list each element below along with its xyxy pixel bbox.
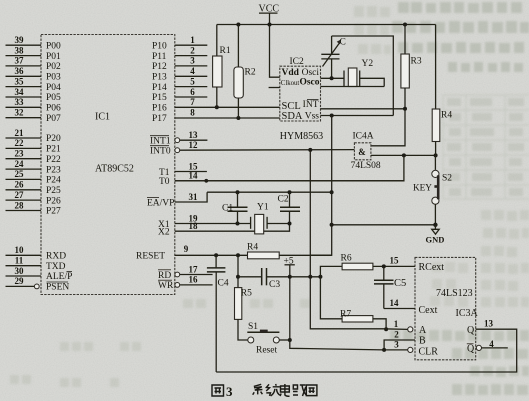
- svg-text:P04: P04: [46, 83, 61, 93]
- wire pin 23 P22: [6, 149, 42, 159]
- svg-text:EA/VP: EA/VP: [147, 198, 174, 208]
- resistor R4 (reset series): [247, 242, 332, 258]
- svg-text:36: 36: [15, 66, 25, 76]
- monostable IC3A 74LS123 box: [415, 257, 479, 359]
- wire pin 32 P07: [6, 108, 42, 118]
- svg-text:17: 17: [189, 264, 199, 274]
- svg-text:TXD: TXD: [46, 262, 66, 272]
- svg-text:B: B: [419, 335, 426, 346]
- wire pin 38 P01: [6, 45, 42, 55]
- svg-text:RXD: RXD: [46, 252, 66, 262]
- wire IC2 Clkout stub: [269, 87, 280, 89]
- svg-text:18: 18: [189, 221, 199, 231]
- push switch S2: [432, 155, 452, 224]
- wire pin 28 P27: [6, 200, 42, 210]
- svg-text:7: 7: [190, 97, 195, 107]
- svg-text:R2: R2: [245, 68, 256, 78]
- svg-text:INT0: INT0: [150, 146, 171, 156]
- svg-text:WR: WR: [158, 281, 174, 291]
- svg-text:25: 25: [15, 169, 25, 179]
- svg-text:P27: P27: [46, 207, 61, 217]
- svg-text:C2: C2: [278, 195, 289, 205]
- svg-text:INT1: INT1: [150, 136, 171, 146]
- svg-text:P25: P25: [46, 186, 61, 196]
- VCC power symbol: [259, 3, 280, 24]
- svg-text:16: 16: [189, 275, 199, 285]
- svg-text:6: 6: [190, 87, 195, 97]
- svg-text:T0: T0: [159, 177, 170, 187]
- svg-text:14: 14: [189, 171, 199, 181]
- wire pin 39 P00: [6, 35, 42, 45]
- wire pin 15 T1 stub: [175, 161, 207, 171]
- svg-text:74LS08: 74LS08: [351, 161, 381, 171]
- svg-text:P12: P12: [152, 62, 167, 72]
- svg-text:30: 30: [15, 266, 25, 276]
- wire ground line to GND: [330, 223, 438, 227]
- svg-text:INT: INT: [303, 100, 319, 110]
- svg-text:RCext: RCext: [419, 262, 445, 273]
- wire R3 down to gate input A: [371, 109, 405, 146]
- svg-text:P20: P20: [46, 134, 61, 144]
- wire pin 26 P25: [6, 180, 42, 190]
- wire pin 5 P14 stub: [175, 76, 208, 86]
- wire pin 24 P23: [6, 159, 42, 169]
- wire pin 35 P04: [6, 76, 42, 86]
- wire pin 8 P17 to IC2 SDA, junction R2: [175, 108, 280, 121]
- wire pin 7 P16 to IC2 SCL, junction R1: [175, 97, 280, 109]
- wire VCC rail: [217, 23, 436, 27]
- capacitor C4: [207, 255, 229, 372]
- wire VCC drop to IC2 Vdd: [270, 25, 280, 78]
- wire pin 21 P20: [6, 128, 42, 138]
- wire pin 1 P10 stub: [175, 35, 208, 45]
- wire pin 27 P26: [6, 190, 42, 200]
- svg-text:C4: C4: [218, 278, 229, 288]
- svg-text:P11: P11: [152, 52, 167, 62]
- svg-text:39: 39: [15, 35, 25, 45]
- wire pin 29 PSEN with bubble: [6, 276, 40, 289]
- svg-text:P05: P05: [46, 93, 61, 103]
- svg-text:Y1: Y1: [257, 203, 269, 213]
- resistor R2: [234, 25, 256, 119]
- svg-text:P06: P06: [46, 104, 61, 114]
- wire pin 17 RD stub with bubble: [175, 264, 213, 277]
- svg-text:31: 31: [189, 192, 199, 202]
- svg-text:KEY: KEY: [413, 182, 432, 192]
- svg-text:1: 1: [190, 35, 195, 45]
- wire crystal Y1 right node: [267, 222, 291, 226]
- svg-text:SCL: SCL: [282, 101, 301, 112]
- svg-text:22: 22: [15, 138, 25, 148]
- wire oscillator loop top (trimmer to Vss): [332, 36, 394, 116]
- trimmer capacitor C: [321, 36, 346, 78]
- svg-text:P16: P16: [152, 104, 167, 114]
- svg-text:Vss: Vss: [305, 111, 320, 121]
- wire crystal Y2 right to Osco riser: [360, 78, 385, 86]
- svg-text:IC4A: IC4A: [353, 131, 374, 141]
- svg-text:24: 24: [15, 159, 25, 169]
- svg-text:10: 10: [15, 245, 25, 255]
- svg-text:34: 34: [15, 87, 25, 97]
- svg-text:P00: P00: [46, 41, 61, 51]
- wire output Q pin 13 feedback loop to C4: [216, 319, 517, 372]
- wire pin 13 INT1 stub with bubble: [175, 130, 207, 143]
- svg-text:14: 14: [390, 298, 400, 308]
- svg-text:3: 3: [190, 56, 195, 66]
- svg-text:P22: P22: [46, 155, 61, 165]
- svg-text:IC3A: IC3A: [456, 308, 479, 319]
- AND gate IC4A 74LS08: [351, 131, 381, 171]
- svg-text:28: 28: [15, 200, 25, 210]
- RTC IC2 HYM8563 box: [280, 57, 323, 142]
- svg-text:Osci: Osci: [302, 68, 320, 78]
- wire main ground riser: [310, 116, 333, 256]
- svg-text:IC2: IC2: [290, 57, 305, 67]
- svg-text:32: 32: [15, 108, 25, 118]
- svg-text:2: 2: [394, 330, 399, 340]
- svg-text:R1: R1: [220, 46, 231, 56]
- wire IC2 Osci to crystal Y2: [321, 76, 345, 80]
- svg-text:C: C: [340, 38, 346, 48]
- svg-text:Y2: Y2: [362, 59, 374, 69]
- svg-text:15: 15: [390, 256, 400, 266]
- wire pin 16 WR stub with bubble: [175, 275, 213, 288]
- svg-text:26: 26: [15, 180, 25, 190]
- wire pin 18 X2 riser to crystal right node: [175, 221, 290, 231]
- svg-text:AT89C52: AT89C52: [95, 164, 134, 175]
- wire pin 6 P15 stub: [175, 87, 208, 97]
- svg-text:37: 37: [15, 56, 25, 66]
- svg-text:P15: P15: [152, 93, 167, 103]
- svg-text:C1: C1: [222, 203, 233, 213]
- wire pin 12 INT0 from gate output: [175, 140, 354, 153]
- svg-text:2: 2: [190, 45, 195, 55]
- wire +5 riser to S1: [288, 265, 310, 349]
- svg-text:Q: Q: [467, 343, 475, 354]
- wire ground rail (EA,C1,C2): [207, 190, 332, 194]
- resistor R5: [235, 255, 253, 340]
- svg-text:P23: P23: [46, 165, 61, 175]
- MCU U IC1 AT89C52 box: [41, 35, 175, 295]
- svg-text:35: 35: [15, 76, 25, 86]
- svg-text:RD: RD: [158, 271, 171, 281]
- svg-text:P07: P07: [46, 114, 61, 124]
- wire pin 3 P12 stub: [175, 56, 208, 66]
- svg-text:8: 8: [190, 108, 195, 118]
- wire pin 30 ALE: [6, 266, 42, 276]
- ground symbol GND: [426, 225, 445, 245]
- wire Cext pin 14: [384, 298, 415, 309]
- svg-text:CLR: CLR: [419, 346, 439, 357]
- svg-text:3: 3: [394, 339, 399, 349]
- wire input A to pin 1: [383, 319, 413, 340]
- svg-text:SDA: SDA: [282, 111, 303, 122]
- svg-text:R7: R7: [340, 309, 351, 319]
- svg-text:P02: P02: [46, 62, 61, 72]
- wire pin 19 X1 to crystal Y1: [175, 213, 251, 225]
- svg-text:HYM8563: HYM8563: [280, 131, 323, 142]
- svg-text:IC1: IC1: [95, 112, 110, 123]
- caption text 3: [226, 384, 233, 399]
- svg-text:38: 38: [15, 45, 25, 55]
- crystal Y1: [251, 203, 269, 234]
- svg-text:R6: R6: [341, 253, 352, 263]
- resistor R4 (key pull-up): [432, 25, 452, 156]
- wire CLR pin 3: [310, 339, 413, 352]
- svg-text:29: 29: [15, 276, 25, 286]
- caption 图3 系统电路图: [212, 384, 317, 396]
- svg-text:4: 4: [190, 66, 195, 76]
- wire IC2 Osco: [321, 86, 385, 88]
- capacitor C1: [222, 192, 248, 223]
- svg-text:13: 13: [189, 130, 199, 140]
- wire pin 10 RXD: [6, 245, 42, 255]
- svg-text:23: 23: [15, 149, 25, 159]
- svg-text:R4: R4: [441, 111, 452, 121]
- wire gate input B / KEY line: [371, 153, 438, 157]
- svg-text:ALE/P: ALE/P: [46, 272, 72, 282]
- wire pin 34 P05: [6, 87, 42, 97]
- svg-text:R3: R3: [411, 57, 422, 67]
- svg-text:3: 3: [226, 384, 233, 399]
- svg-text:P13: P13: [152, 73, 167, 83]
- wire pin 33 P06: [6, 97, 42, 107]
- push switch S1 Reset: [247, 322, 290, 356]
- svg-text:12: 12: [189, 140, 199, 150]
- resistor R1: [213, 25, 231, 108]
- wire pin 25 P24: [6, 169, 42, 179]
- svg-text:P01: P01: [46, 52, 61, 62]
- svg-text:9: 9: [184, 244, 189, 254]
- svg-text:74LS123: 74LS123: [436, 288, 473, 299]
- svg-text:P03: P03: [46, 73, 61, 83]
- svg-text:C3: C3: [269, 280, 280, 290]
- svg-text:GND: GND: [426, 235, 445, 245]
- svg-text:21: 21: [15, 128, 25, 138]
- crystal Y2: [344, 59, 373, 87]
- svg-text:Cext: Cext: [419, 305, 438, 316]
- svg-text:&: &: [358, 147, 366, 157]
- svg-text:5: 5: [190, 76, 195, 86]
- wire pin 2 P11 stub: [175, 45, 208, 55]
- resistor R6 timing: [320, 253, 415, 277]
- svg-text:P26: P26: [46, 196, 61, 206]
- svg-text:P24: P24: [46, 176, 61, 186]
- wire C3 node to R6 riser: [290, 275, 323, 279]
- svg-text:1: 1: [394, 319, 399, 329]
- svg-text:Osco: Osco: [299, 78, 319, 88]
- wire INT0 branch down to 123 input A: [310, 150, 383, 329]
- svg-text:RESET: RESET: [136, 252, 165, 262]
- svg-text:4: 4: [489, 339, 494, 349]
- wire pin 36 P03: [6, 66, 42, 76]
- resistor R7 pull-up of A: [320, 277, 386, 329]
- svg-text:27: 27: [15, 190, 25, 200]
- resistor R3 with pull-up to INT: [401, 25, 422, 110]
- svg-text:Clkout: Clkout: [281, 80, 300, 87]
- wire pin 11 TXD: [6, 256, 42, 266]
- wire input B tied to CLR: [382, 340, 415, 352]
- svg-text:S1: S1: [248, 322, 258, 332]
- svg-text:13: 13: [484, 319, 494, 329]
- wire KEY riser to T0 line: [175, 155, 432, 192]
- svg-text:R4: R4: [247, 242, 258, 252]
- svg-text:X2: X2: [158, 228, 170, 238]
- svg-text:P14: P14: [152, 83, 167, 93]
- wire pin 37 P02: [6, 56, 42, 66]
- wire pin 22 P21: [6, 138, 42, 148]
- svg-text:P10: P10: [152, 41, 167, 51]
- svg-text:P21: P21: [46, 145, 61, 155]
- capacitor C5 timing: [374, 266, 406, 308]
- wire IC2 INT to R3 junction: [321, 107, 408, 111]
- capacitor C3: [238, 268, 290, 290]
- wire IC2 Vss to loop: [321, 114, 394, 118]
- capacitor C2: [278, 192, 301, 223]
- wire pin 14 T0 to KEY riser: [175, 171, 404, 183]
- svg-text:PSEN: PSEN: [46, 283, 69, 293]
- svg-text:Reset: Reset: [256, 346, 277, 356]
- wire pin 4 P13 stub: [175, 66, 208, 76]
- svg-text:C5: C5: [394, 278, 406, 289]
- wire pin 9 RESET line with C4,R5 taps: [175, 244, 248, 257]
- svg-text:Vdd: Vdd: [282, 68, 300, 78]
- svg-text:11: 11: [15, 256, 24, 266]
- svg-text:33: 33: [15, 97, 25, 107]
- wire pin 31 EA/VP riser to ground rail: [175, 192, 207, 202]
- svg-text:P17: P17: [152, 114, 167, 124]
- wire output Qbar pin 4 stub: [476, 339, 508, 350]
- svg-text:Q: Q: [467, 325, 475, 336]
- +5 supply symbol: [284, 256, 295, 266]
- svg-text:R5: R5: [241, 288, 252, 298]
- svg-text:S2: S2: [442, 174, 452, 184]
